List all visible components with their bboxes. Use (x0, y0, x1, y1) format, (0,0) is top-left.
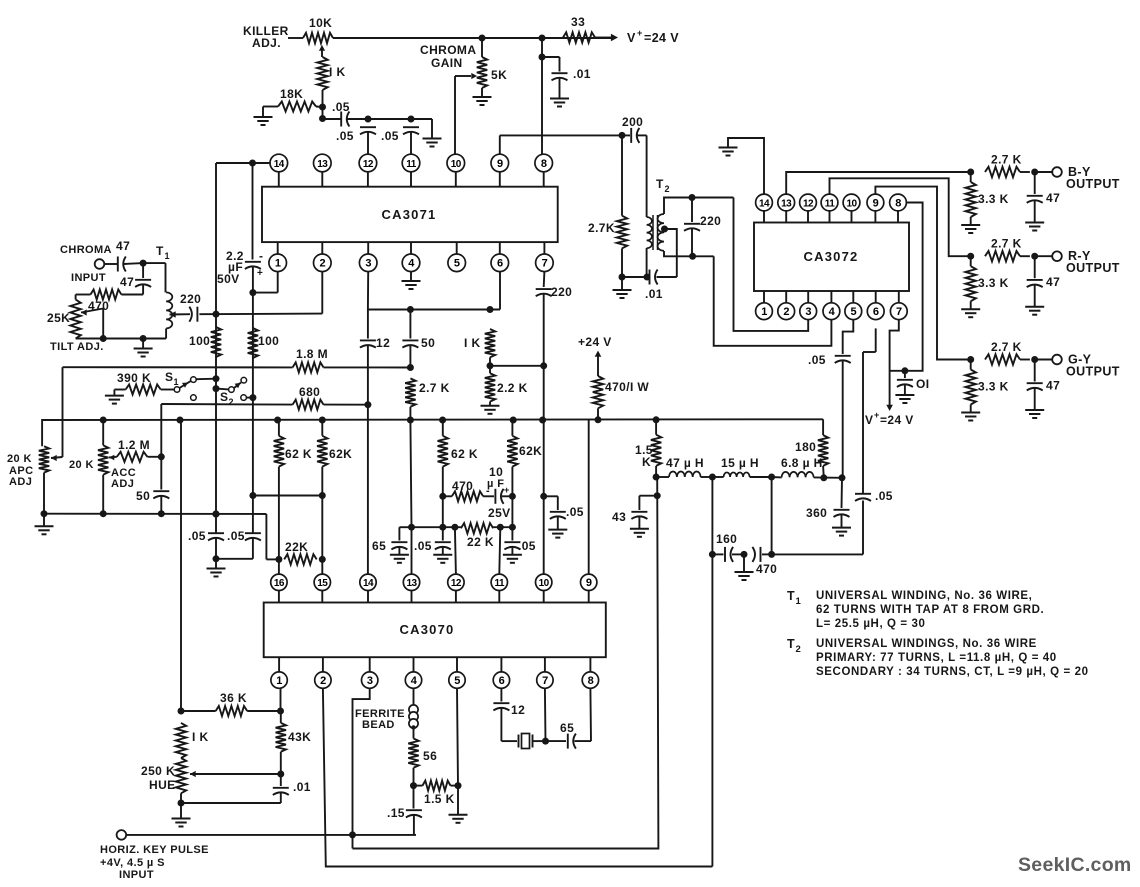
svg-text:T: T (787, 589, 795, 603)
svg-text:OUTPUT: OUTPUT (1066, 177, 1120, 191)
svg-text:2.7 K: 2.7 K (991, 340, 1022, 354)
svg-text:62K: 62K (519, 444, 542, 458)
svg-text:8: 8 (588, 675, 594, 687)
svg-text:HORIZ. KEY PULSE: HORIZ. KEY PULSE (100, 844, 209, 856)
svg-text:250 K: 250 K (141, 764, 175, 778)
svg-text:2: 2 (229, 397, 234, 407)
svg-text:220: 220 (551, 285, 572, 299)
svg-text:25K: 25K (47, 311, 70, 325)
svg-text:PRIMARY: 77 TURNS, L =11.8 µH: PRIMARY: 77 TURNS, L =11.8 µH, Q = 40 (816, 652, 1057, 664)
svg-text:13: 13 (317, 159, 328, 170)
svg-text:6.8 µ H: 6.8 µ H (781, 456, 823, 470)
svg-text:470: 470 (452, 479, 473, 493)
svg-text:11: 11 (825, 198, 836, 209)
svg-text:470: 470 (756, 562, 777, 576)
svg-text:62 K: 62 K (285, 447, 312, 461)
svg-text:160: 160 (716, 532, 737, 546)
svg-text:2: 2 (783, 306, 789, 318)
svg-text:+: + (504, 485, 510, 495)
svg-text:.05: .05 (808, 353, 826, 367)
svg-text:CA3071: CA3071 (382, 207, 437, 222)
svg-text:.05: .05 (414, 539, 432, 553)
svg-text:1: 1 (761, 306, 767, 318)
svg-text:220: 220 (700, 214, 721, 228)
svg-text:62 K: 62 K (451, 447, 478, 461)
svg-text:20 K: 20 K (69, 459, 94, 471)
svg-text:S: S (165, 370, 173, 384)
svg-text:390 K: 390 K (117, 371, 151, 385)
svg-text:18K: 18K (280, 87, 303, 101)
svg-text:3.3 K: 3.3 K (978, 192, 1009, 206)
svg-text:T: T (787, 637, 795, 651)
svg-text:3.3 K: 3.3 K (978, 276, 1009, 290)
svg-text:T: T (656, 177, 664, 191)
svg-text:16: 16 (274, 578, 285, 589)
svg-text:25V: 25V (488, 506, 511, 520)
svg-text:+: + (257, 268, 263, 279)
svg-text:1.2 M: 1.2 M (118, 438, 150, 452)
svg-text:.05: .05 (566, 505, 584, 519)
svg-text:12: 12 (803, 198, 814, 209)
svg-text:5: 5 (850, 306, 856, 318)
svg-text:470/I W: 470/I W (605, 380, 649, 394)
svg-text:10: 10 (451, 159, 462, 170)
svg-text:10: 10 (846, 198, 857, 209)
svg-text:47: 47 (1046, 275, 1060, 289)
svg-text:12: 12 (451, 578, 462, 589)
svg-text:65: 65 (560, 721, 574, 735)
svg-text:ADJ: ADJ (9, 476, 32, 488)
svg-text:9: 9 (586, 577, 592, 589)
svg-text:11: 11 (495, 578, 506, 589)
svg-text:12: 12 (376, 336, 390, 350)
svg-text:2.7K: 2.7K (588, 221, 615, 235)
svg-text:.01: .01 (645, 287, 663, 301)
svg-text:OI: OI (916, 377, 929, 391)
svg-text:50: 50 (136, 489, 150, 503)
svg-text:3: 3 (805, 306, 811, 318)
svg-text:S: S (220, 390, 228, 404)
svg-text:6: 6 (497, 258, 503, 270)
svg-text:CA3072: CA3072 (804, 249, 859, 264)
svg-text:-: - (486, 485, 490, 497)
svg-text:.05: .05 (336, 129, 354, 143)
svg-text:T: T (156, 244, 164, 258)
svg-text:10: 10 (489, 465, 503, 479)
svg-text:K: K (642, 455, 651, 469)
svg-text:36 K: 36 K (220, 691, 247, 705)
svg-text:56: 56 (423, 749, 437, 763)
svg-text:.05: .05 (381, 129, 399, 143)
svg-text:11: 11 (406, 159, 417, 170)
svg-text:UNIVERSAL WINDING, No. 36 WI: UNIVERSAL WINDING, No. 36 WIRE, (816, 590, 1032, 602)
svg-text:7: 7 (896, 306, 902, 318)
svg-text:3: 3 (367, 675, 373, 687)
svg-text:+24 V: +24 V (578, 335, 612, 349)
svg-text:6: 6 (873, 306, 879, 318)
svg-text:I K: I K (329, 65, 346, 79)
svg-text:43K: 43K (288, 730, 311, 744)
svg-text:2: 2 (320, 675, 326, 687)
svg-text:12: 12 (511, 703, 525, 717)
svg-text:100: 100 (258, 334, 279, 348)
svg-text:2: 2 (665, 184, 670, 194)
svg-text:-: - (259, 249, 263, 263)
svg-text:47: 47 (1046, 191, 1060, 205)
svg-text:GAIN: GAIN (431, 56, 463, 70)
svg-text:1: 1 (276, 675, 282, 687)
svg-text:1: 1 (796, 596, 802, 607)
svg-text:ADJ.: ADJ. (252, 36, 281, 50)
svg-text:1: 1 (174, 377, 179, 387)
svg-text:47: 47 (116, 239, 130, 253)
svg-text:I K: I K (464, 336, 481, 350)
svg-text:220: 220 (180, 292, 201, 306)
svg-text:+: + (637, 28, 643, 38)
svg-text:200: 200 (622, 115, 643, 129)
svg-text:14: 14 (363, 578, 374, 589)
svg-text:.05: .05 (875, 489, 893, 503)
svg-text:9: 9 (497, 158, 503, 170)
svg-text:.05: .05 (188, 529, 206, 543)
svg-text:=24 V: =24 V (880, 413, 914, 427)
svg-text:8: 8 (895, 197, 901, 209)
svg-text:360: 360 (806, 506, 827, 520)
svg-text:ADJ: ADJ (111, 478, 134, 490)
svg-text:.05: .05 (227, 529, 245, 543)
svg-text:8: 8 (541, 158, 547, 170)
svg-text:5: 5 (454, 258, 460, 270)
svg-text:65: 65 (372, 539, 386, 553)
svg-text:22 K: 22 K (467, 535, 494, 549)
svg-text:12: 12 (363, 159, 374, 170)
svg-text:3.3 K: 3.3 K (978, 380, 1009, 394)
svg-text:2.7 K: 2.7 K (991, 237, 1022, 251)
svg-text:INPUT: INPUT (71, 272, 106, 284)
svg-text:L= 25.5 µH, Q = 30: L= 25.5 µH, Q = 30 (816, 618, 925, 630)
svg-text:180: 180 (795, 440, 816, 454)
svg-text:10K: 10K (309, 16, 332, 30)
svg-text:1: 1 (165, 251, 170, 261)
svg-text:5K: 5K (491, 68, 507, 82)
svg-text:SeekIC.com: SeekIC.com (1018, 854, 1132, 876)
svg-text:BEAD: BEAD (362, 719, 395, 731)
svg-text:2.2 K: 2.2 K (497, 381, 528, 395)
svg-text:33: 33 (571, 15, 585, 29)
svg-text:14: 14 (759, 198, 770, 209)
svg-text:50V: 50V (217, 272, 240, 286)
svg-text:=24 V: =24 V (644, 31, 679, 45)
svg-text:.15: .15 (387, 806, 405, 820)
svg-text:15 µ H: 15 µ H (721, 456, 759, 470)
svg-text:50: 50 (421, 336, 435, 350)
svg-text:I K: I K (192, 730, 209, 744)
svg-text:13: 13 (781, 198, 792, 209)
svg-text:15: 15 (317, 578, 328, 589)
svg-text:HUE: HUE (149, 778, 176, 792)
svg-text:+4V, 4.5 µ S: +4V, 4.5 µ S (100, 857, 165, 869)
svg-text:680: 680 (299, 385, 320, 399)
svg-text:2.7 K: 2.7 K (991, 153, 1022, 167)
svg-text:V: V (865, 413, 873, 427)
svg-text:CA3070: CA3070 (400, 622, 455, 637)
svg-text:7: 7 (542, 675, 548, 687)
svg-text:20 K: 20 K (7, 453, 32, 465)
svg-text:V: V (627, 31, 636, 45)
svg-text:9: 9 (873, 197, 879, 209)
svg-text:.05: .05 (518, 539, 536, 553)
svg-text:1.5 K: 1.5 K (424, 792, 455, 806)
svg-text:100: 100 (189, 334, 210, 348)
svg-text:.05: .05 (332, 100, 350, 114)
svg-text:22K: 22K (285, 540, 308, 554)
svg-text:2: 2 (319, 258, 325, 270)
svg-text:5: 5 (454, 675, 460, 687)
svg-text:1: 1 (275, 258, 281, 270)
svg-text:.01: .01 (293, 780, 311, 794)
svg-text:OUTPUT: OUTPUT (1066, 365, 1120, 379)
svg-text:7: 7 (542, 258, 548, 270)
svg-text:6: 6 (499, 675, 505, 687)
svg-text:47 µ H: 47 µ H (666, 456, 704, 470)
svg-text:3: 3 (365, 258, 371, 270)
svg-text:10: 10 (539, 578, 550, 589)
svg-text:13: 13 (406, 578, 417, 589)
svg-text:1.8 M: 1.8 M (296, 347, 328, 361)
svg-text:INPUT: INPUT (119, 869, 154, 881)
svg-text:2: 2 (796, 644, 802, 655)
svg-text:CHROMA: CHROMA (420, 43, 476, 57)
svg-text:62K: 62K (329, 447, 352, 461)
svg-text:CHROMA: CHROMA (60, 244, 112, 256)
svg-text:TILT ADJ.: TILT ADJ. (50, 341, 104, 353)
svg-text:UNIVERSAL WINDINGS, No. 36 W: UNIVERSAL WINDINGS, No. 36 WIRE (816, 638, 1037, 650)
svg-text:2.7 K: 2.7 K (419, 381, 450, 395)
svg-text:47: 47 (120, 275, 134, 289)
svg-text:62 TURNS WITH TAP AT 8 FR: 62 TURNS WITH TAP AT 8 FROM GRD. (816, 604, 1044, 616)
svg-text:+: + (874, 410, 880, 420)
svg-text:SECONDARY : 34 TURNS, CT, L =: SECONDARY : 34 TURNS, CT, L =9 µH, Q = 2… (816, 666, 1089, 678)
svg-text:47: 47 (1046, 379, 1060, 393)
svg-text:43: 43 (612, 510, 626, 524)
svg-text:.01: .01 (573, 67, 591, 81)
svg-text:OUTPUT: OUTPUT (1066, 261, 1120, 275)
svg-text:14: 14 (274, 159, 285, 170)
